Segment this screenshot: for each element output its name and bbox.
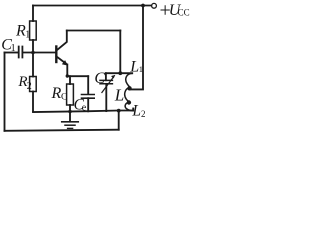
svg-text:L: L — [131, 102, 141, 119]
wire emitter vertical — [66, 65, 68, 77]
wire emitter horizontal to Ce — [67, 75, 88, 77]
wire R1 bottom lead — [32, 40, 34, 53]
wire Rc top lead — [69, 76, 71, 84]
node coil tap knot 1 — [127, 86, 131, 90]
capacitor C1 left wire — [5, 52, 19, 54]
node Ucc junction dot — [141, 4, 145, 8]
transistor Q1 emitter with arrow — [57, 57, 67, 65]
capacitor C1 plates — [19, 47, 23, 58]
capacitor C variable plates — [100, 80, 112, 83]
svg-text:1: 1 — [25, 29, 30, 40]
svg-text:e: e — [82, 103, 87, 114]
capacitor Ce plates — [82, 95, 95, 99]
wire R2 top lead — [32, 53, 34, 77]
svg-text:CC: CC — [178, 8, 190, 18]
ground symbol — [69, 112, 71, 122]
wire bottom rail — [5, 130, 119, 131]
wire coil bottom to rail — [132, 109, 134, 111]
node base junction dot — [31, 51, 35, 55]
wire R1 top lead — [32, 6, 34, 22]
node coil tap knot 2 — [127, 100, 131, 104]
node emitter junction dot — [66, 74, 69, 77]
wire left edge vertical — [4, 53, 6, 131]
wire collector drop to tank — [119, 31, 121, 74]
resistor R2 — [30, 77, 37, 92]
svg-text:2: 2 — [27, 81, 32, 92]
node ground junction dot — [68, 110, 72, 114]
resistor Rc — [67, 84, 74, 105]
node tank top junction dot — [118, 71, 122, 75]
svg-text:1: 1 — [11, 43, 16, 54]
svg-text:C: C — [94, 70, 105, 87]
svg-text:1: 1 — [139, 64, 143, 74]
capacitor Ce bottom lead — [87, 98, 89, 111]
svg-text:R: R — [51, 85, 62, 102]
svg-text:L: L — [114, 85, 124, 104]
transistor Q1 base bar — [55, 47, 57, 63]
wire top rail — [33, 5, 151, 7]
wire Rc bottom lead — [69, 105, 71, 112]
inductor L1-L-L2 coil — [125, 73, 133, 110]
svg-text:C: C — [61, 92, 67, 102]
wire collector horizontal — [67, 30, 121, 32]
node riser junction dot — [117, 109, 121, 113]
wire bottom right riser — [118, 111, 120, 130]
svg-text:L: L — [129, 58, 139, 75]
capacitor C variable bottom lead — [105, 84, 107, 111]
wire Ucc feed vertical — [130, 6, 144, 90]
wire R2 bottom lead — [32, 92, 34, 112]
terminal +Ucc circle — [152, 3, 157, 8]
svg-text:2: 2 — [141, 109, 146, 119]
capacitor Ce top lead — [87, 76, 89, 94]
wire emitter ground rail — [33, 111, 133, 113]
capacitor C variable arrow — [102, 77, 114, 93]
capacitor C variable top lead — [105, 73, 107, 80]
resistor R1 — [30, 21, 37, 40]
wire tank top — [106, 72, 132, 74]
wire base horizontal — [23, 52, 56, 54]
transistor Q1 collector — [57, 31, 67, 51]
